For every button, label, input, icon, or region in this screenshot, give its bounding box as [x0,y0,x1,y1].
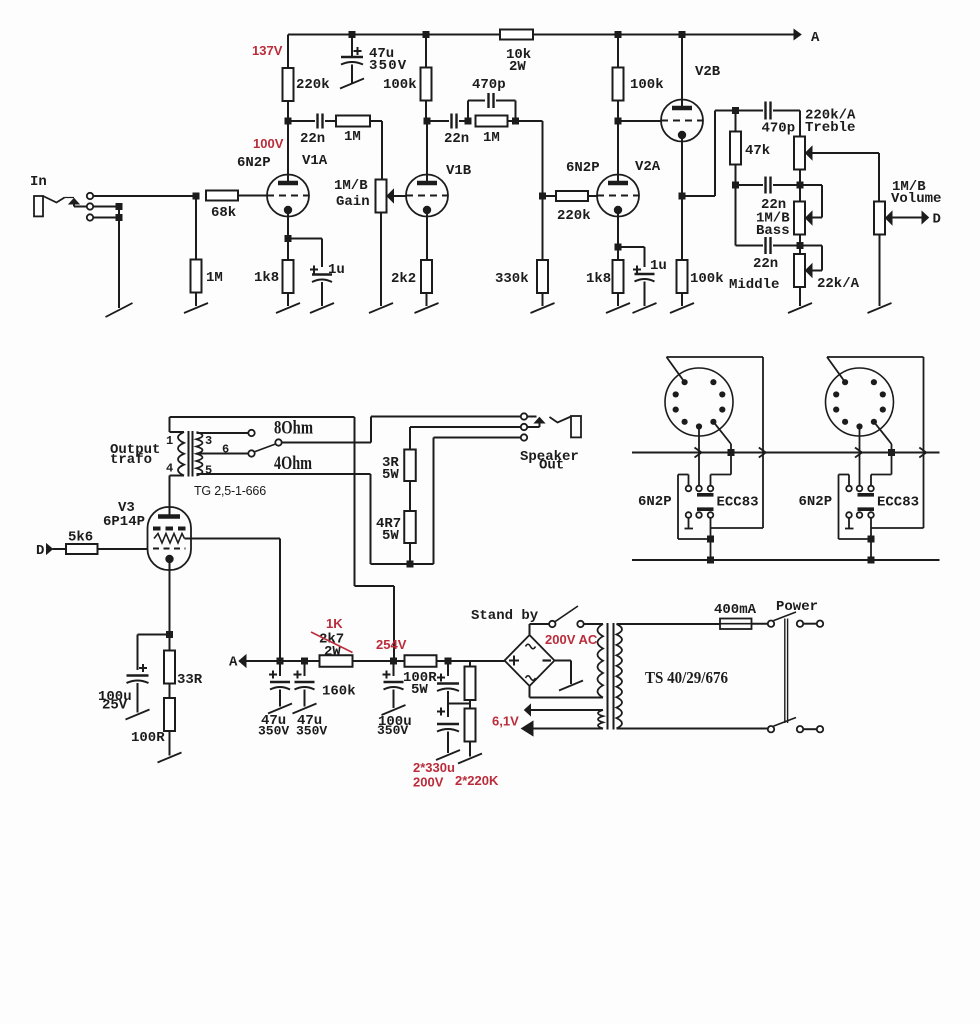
svg-text:350V: 350V [296,724,327,739]
svg-text:1M/B: 1M/B [334,178,368,194]
svg-text:TG 2,5-1-666: TG 2,5-1-666 [194,484,266,498]
svg-text:V1B: V1B [446,163,472,179]
svg-text:100k: 100k [690,271,724,287]
svg-text:5W: 5W [382,467,399,483]
svg-text:6N2P: 6N2P [566,160,600,176]
svg-text:Stand by: Stand by [471,608,539,624]
svg-text:5W: 5W [411,682,428,698]
svg-text:6N2P: 6N2P [237,155,271,171]
svg-text:6N2P: 6N2P [799,494,833,510]
svg-text:160k: 160k [322,684,356,700]
svg-text:Volume: Volume [891,191,941,207]
svg-text:5W: 5W [382,528,399,544]
svg-text:1: 1 [166,434,173,448]
svg-text:350V: 350V [258,724,289,739]
svg-text:ECC83: ECC83 [717,495,759,511]
svg-text:137V: 137V [252,43,283,58]
svg-text:1K: 1K [326,616,343,631]
svg-text:100k: 100k [630,77,664,93]
svg-text:100R: 100R [131,730,165,746]
svg-text:22n: 22n [444,131,469,147]
svg-text:1k8: 1k8 [254,270,279,286]
svg-text:22k/A: 22k/A [817,276,860,292]
svg-text:1u: 1u [650,258,667,274]
svg-text:Power: Power [776,599,818,615]
svg-text:6P14P: 6P14P [103,514,145,530]
svg-text:220k: 220k [296,77,330,93]
svg-text:Middle: Middle [729,277,779,293]
svg-text:1M: 1M [483,130,500,146]
svg-text:ECC83: ECC83 [877,495,919,511]
svg-text:350V: 350V [377,723,408,738]
svg-text:6N2P: 6N2P [638,494,672,510]
svg-text:Gain: Gain [336,194,370,210]
svg-text:1u: 1u [328,262,345,278]
svg-text:2W: 2W [509,59,526,75]
svg-text:68k: 68k [211,205,236,221]
svg-text:33R: 33R [177,672,203,688]
svg-text:4Ohm: 4Ohm [274,454,312,474]
svg-text:200V: 200V [413,775,444,790]
svg-text:2*330u: 2*330u [413,760,455,775]
svg-text:A: A [811,30,820,46]
svg-text:V2B: V2B [695,64,721,80]
svg-text:470p: 470p [762,121,796,137]
svg-text:Treble: Treble [805,120,855,136]
svg-text:A: A [229,655,238,671]
svg-text:200V AC: 200V AC [545,632,598,647]
svg-text:330k: 330k [495,271,529,287]
svg-text:1M: 1M [206,270,223,286]
svg-text:22n: 22n [300,131,325,147]
svg-text:8Ohm: 8Ohm [274,419,313,439]
svg-text:TS 40/29/676: TS 40/29/676 [645,668,728,687]
svg-text:V1A: V1A [302,153,328,169]
svg-text:Out: Out [539,458,564,474]
svg-text:V2A: V2A [635,159,661,175]
svg-text:5: 5 [205,464,212,478]
svg-text:1M: 1M [344,129,361,145]
svg-text:25V: 25V [102,698,128,714]
svg-text:400mA: 400mA [714,602,757,618]
svg-text:D: D [36,543,44,559]
svg-text:220k: 220k [557,208,591,224]
svg-text:100V: 100V [253,136,284,151]
svg-text:100k: 100k [383,77,417,93]
svg-text:47k: 47k [745,143,770,159]
svg-text:trafo: trafo [110,452,152,468]
svg-text:350V: 350V [369,58,407,74]
svg-text:22n: 22n [753,256,778,272]
svg-text:In: In [30,174,47,190]
svg-text:2*220K: 2*220K [455,773,499,788]
svg-text:1k8: 1k8 [586,271,611,287]
svg-text:Bass: Bass [756,223,790,239]
svg-text:D: D [933,212,941,228]
svg-text:3: 3 [205,434,212,448]
svg-text:5k6: 5k6 [68,530,93,546]
svg-text:6,1V: 6,1V [492,714,519,729]
svg-text:4: 4 [166,462,173,476]
svg-text:470p: 470p [472,77,506,93]
svg-text:254V: 254V [376,637,407,652]
svg-text:2k2: 2k2 [391,271,416,287]
